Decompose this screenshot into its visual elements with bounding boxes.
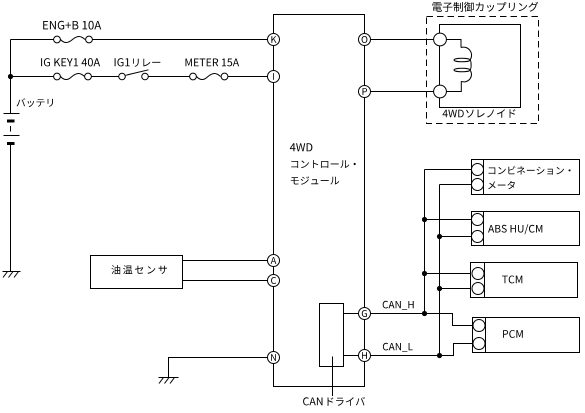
combination meter box with connector pins xyxy=(472,160,580,195)
wire fuse F2 to relay xyxy=(92,76,119,78)
wire CAN_H terminal G to PCM xyxy=(371,314,473,326)
terminal H xyxy=(359,350,371,362)
leader line CAN driver label xyxy=(332,357,334,397)
wire relay to fuse F3 xyxy=(148,76,189,78)
label 4WD solenoid xyxy=(443,109,516,118)
solenoid pin top xyxy=(434,33,447,46)
label ABS HU/CM xyxy=(488,224,542,234)
label TCM xyxy=(502,276,522,284)
label combination meter xyxy=(488,166,570,189)
wire fuse F3 to terminal I xyxy=(228,76,268,78)
wire fuse F1 to terminal K xyxy=(93,39,268,41)
terminal A xyxy=(268,255,280,267)
fuse F1 ENG+B 10A xyxy=(54,36,93,43)
terminal I xyxy=(268,71,280,83)
wire bus to combination meter pin 2 xyxy=(440,184,472,186)
wire CAN_L bus vertical xyxy=(439,185,441,356)
4WD solenoid L1 box xyxy=(440,25,521,108)
terminal C xyxy=(268,275,280,287)
electronically controlled coupling dashed box xyxy=(427,17,539,124)
4WD control module U1 body xyxy=(274,15,365,387)
label fuse F3 METER 15A xyxy=(186,59,240,67)
wire CAN driver to terminal H xyxy=(344,355,359,357)
terminal G xyxy=(359,308,371,320)
terminal O xyxy=(359,34,371,46)
node B1 battery junction xyxy=(8,74,13,79)
wire terminal N to ground xyxy=(169,358,268,378)
label electronically controlled coupling xyxy=(432,2,538,12)
wire bus to ABS pin 2 xyxy=(440,236,472,238)
node ABS CAN_H junction xyxy=(422,217,427,222)
label CAN driver xyxy=(303,397,365,406)
battery BT1 xyxy=(4,114,20,144)
wire bus to TCM pin 1 xyxy=(425,273,471,275)
label 4WD control module xyxy=(290,143,356,185)
label oil temp sensor xyxy=(111,265,167,274)
relay IG1 contact xyxy=(119,70,149,80)
ABS HU/CM box with connector pins xyxy=(472,212,580,246)
wire bus to combination meter pin 1 xyxy=(425,169,472,171)
label fuse F2 IG KEY1 40A xyxy=(41,58,100,66)
label net CAN_L xyxy=(383,343,413,352)
wire terminal O to solenoid xyxy=(371,39,434,41)
node TCM CAN_L junction xyxy=(437,286,442,291)
wire CAN_H bus vertical xyxy=(424,170,426,314)
wire CAN driver to terminal G xyxy=(344,313,359,315)
label fuse F1 ENG+B 10A xyxy=(43,21,101,30)
wire bus to TCM pin 2 xyxy=(440,288,471,290)
wire bus to ABS pin 1 xyxy=(425,219,472,221)
node CAN_H junction xyxy=(422,311,427,316)
label PCM xyxy=(503,330,523,338)
wire node B1 down to battery xyxy=(10,77,12,114)
ground module ground xyxy=(159,378,179,384)
wire terminal P to solenoid xyxy=(371,91,434,93)
solenoid coil L1 xyxy=(446,40,471,92)
wire battery to ground xyxy=(10,145,12,272)
terminal P xyxy=(359,86,371,98)
node TCM CAN_H junction xyxy=(422,271,427,276)
fuse F3 METER 15A xyxy=(190,73,228,80)
solenoid pin bottom xyxy=(434,85,447,98)
node ABS CAN_L junction xyxy=(437,234,442,239)
node CAN_L junction xyxy=(437,353,442,358)
wire CAN_L terminal H to PCM xyxy=(371,344,473,356)
CAN driver U2 box xyxy=(320,304,344,367)
terminal K xyxy=(268,34,280,46)
oil temp sensor box xyxy=(91,256,183,289)
fuse F2 IG KEY1 40A xyxy=(54,73,92,80)
wire node B1 to fuse F2 xyxy=(11,76,54,78)
label battery xyxy=(17,98,53,107)
ground battery ground xyxy=(3,272,21,278)
wire sensor to terminal A xyxy=(183,260,268,262)
wire ENG+B row to fuse F1 xyxy=(11,39,54,41)
wire sensor to terminal C xyxy=(183,280,268,282)
label net CAN_H xyxy=(383,301,414,310)
label relay IG1 xyxy=(115,58,161,67)
PCM box with connector pins xyxy=(473,318,580,353)
TCM box with connector pins xyxy=(471,263,578,298)
terminal N xyxy=(268,352,280,364)
wire vertical link row1 to node B1 xyxy=(10,40,12,77)
